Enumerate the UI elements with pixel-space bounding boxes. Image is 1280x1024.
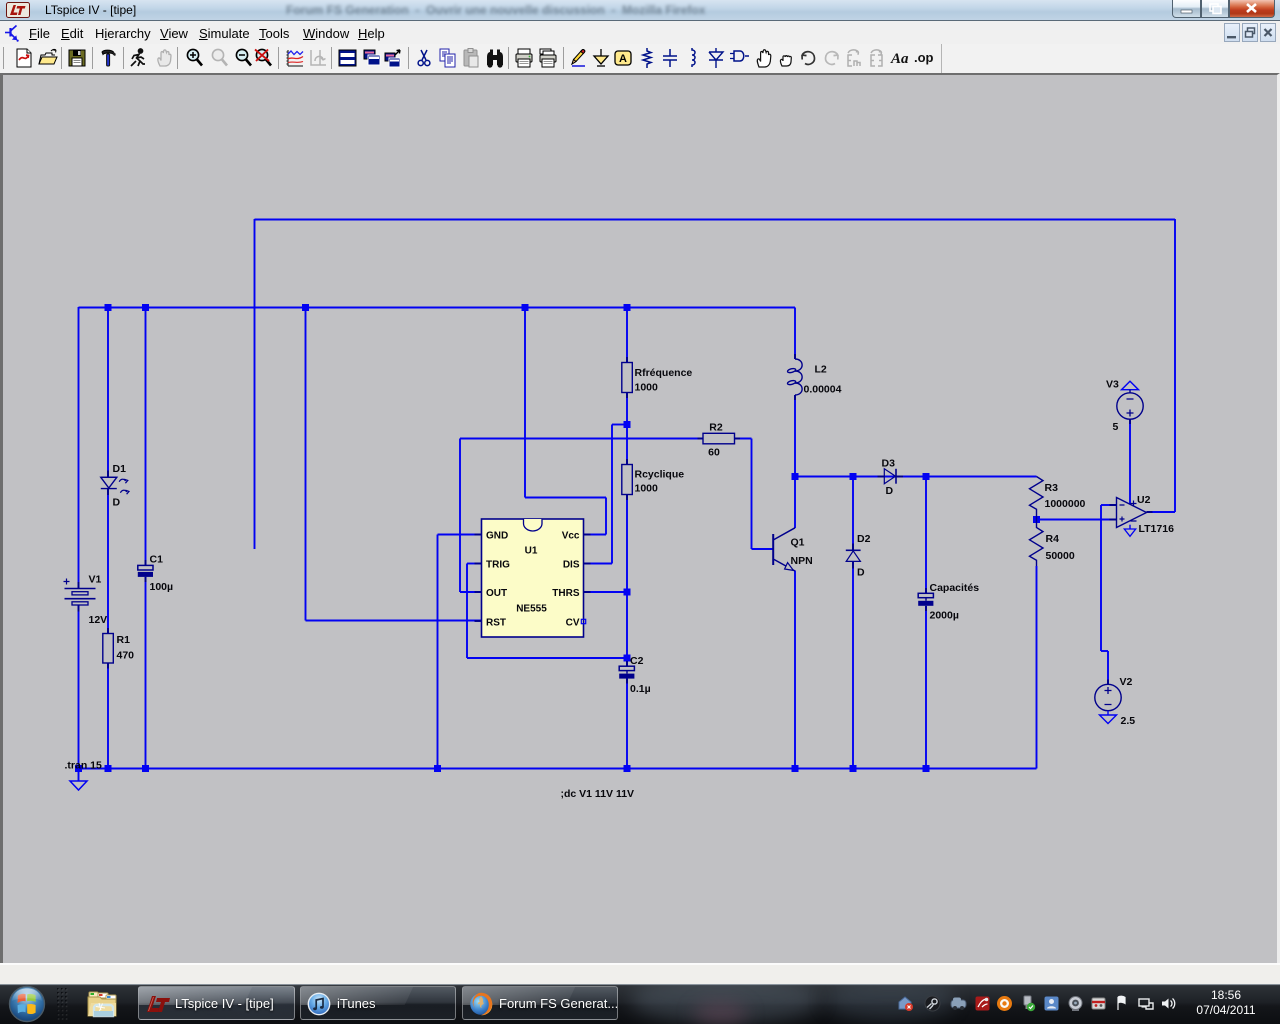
tray icon usb: [1019, 995, 1036, 1012]
svg-text:50000: 50000: [1046, 550, 1075, 562]
svg-text:U2: U2: [1137, 494, 1151, 506]
component pin stubs: [79, 354, 1153, 684]
wire: [795, 476, 1037, 478]
junction: [792, 473, 799, 480]
svg-text:V1: V1: [89, 574, 102, 586]
svg-text:.tran 15: .tran 15: [65, 760, 103, 772]
wire: [107, 663, 109, 769]
svg-text:Capacités: Capacités: [930, 582, 980, 594]
wire: [1107, 651, 1109, 685]
wire: [524, 308, 526, 498]
status bar: [0, 963, 1280, 984]
junction: [1033, 516, 1040, 523]
svg-text:NE555: NE555: [516, 604, 547, 615]
svg-text:470: 470: [117, 650, 135, 662]
svg-text:D: D: [857, 567, 865, 579]
svg-text:2.5: 2.5: [1121, 715, 1136, 727]
svg-text:V2: V2: [1120, 676, 1133, 688]
svg-text:0.00004: 0.00004: [804, 384, 842, 396]
tray icon 1: [897, 995, 914, 1012]
svg-text:100µ: 100µ: [150, 581, 174, 593]
svg-text:D1: D1: [113, 463, 127, 475]
junction: [105, 765, 112, 772]
ground main: [78, 769, 80, 782]
voltage source V2: [1095, 684, 1121, 710]
taskbar: [0, 984, 1280, 1024]
wire: [925, 477, 927, 594]
svg-text:60: 60: [708, 447, 720, 459]
svg-text:U1: U1: [525, 546, 538, 557]
tray network: [1137, 995, 1154, 1012]
ground under V2: [1107, 711, 1109, 715]
wire: [467, 563, 482, 565]
wire: [145, 577, 147, 769]
svg-text:0.1µ: 0.1µ: [630, 683, 651, 695]
wire: [1147, 511, 1176, 513]
diode D3: [884, 469, 895, 484]
svg-text:TRIG: TRIG: [486, 560, 510, 571]
svg-text:D: D: [886, 485, 894, 497]
svg-text:RST: RST: [486, 618, 506, 629]
tray flag: [1114, 995, 1131, 1012]
wire: [254, 219, 256, 549]
wire: [852, 562, 854, 769]
wire: [584, 534, 607, 536]
junction: [434, 765, 441, 772]
svg-text:DIS: DIS: [563, 560, 580, 571]
junction: [850, 765, 857, 772]
svg-text:Rcyclique: Rcyclique: [635, 469, 685, 481]
wire: [107, 489, 109, 634]
taskbar grip: [56, 987, 70, 1023]
capacitor C2: [619, 666, 634, 670]
wire: [626, 679, 628, 769]
diode D1 (LED): [101, 477, 129, 494]
wire: [852, 477, 854, 551]
wire: [78, 606, 80, 769]
wire ground rail: [79, 768, 1037, 770]
start orb: [8, 985, 46, 1023]
wire: [525, 497, 606, 499]
junction: [923, 765, 930, 772]
svg-text:2000µ: 2000µ: [930, 610, 959, 622]
op-amp U2 LT1716: [1117, 498, 1147, 528]
resistor R3: [1030, 477, 1044, 520]
resistor Rcyclique: [622, 465, 633, 495]
junction: [302, 304, 309, 311]
svg-text:;dc V1 11V 11V: ;dc V1 11V 11V: [561, 788, 635, 800]
wire: [794, 395, 796, 477]
wire: [1174, 219, 1176, 512]
svg-text:R4: R4: [1046, 533, 1060, 545]
svg-text:1000000: 1000000: [1045, 498, 1086, 510]
U2 negative supply flag: [1129, 525, 1131, 529]
junction: [105, 304, 112, 311]
wire: [626, 425, 628, 465]
wire: [459, 439, 461, 593]
svg-text:Q1: Q1: [791, 537, 805, 549]
wire: [611, 425, 613, 564]
resistor R2: [703, 433, 735, 444]
capacitor Capacites: [918, 593, 933, 597]
junction: [522, 304, 529, 311]
svg-text:R1: R1: [117, 634, 131, 646]
menu bar: [0, 20, 1280, 44]
op-amp U1 NE555 body: [482, 519, 584, 637]
wire: [584, 591, 628, 593]
taskbar button iTunes: [300, 986, 456, 1020]
svg-text:D3: D3: [882, 458, 896, 470]
wire: [626, 495, 628, 667]
svg-text:12V: 12V: [89, 614, 108, 626]
junction: [142, 304, 149, 311]
svg-text:R2: R2: [709, 422, 723, 434]
wire: [1036, 566, 1038, 769]
inductor L2: [787, 359, 802, 395]
wire: [751, 439, 753, 550]
junction: [75, 765, 82, 772]
wire: [925, 606, 927, 768]
wire: [466, 564, 468, 659]
wire: [794, 308, 796, 360]
wire: [107, 308, 109, 478]
svg-text:C1: C1: [150, 554, 164, 566]
wire: [1101, 650, 1108, 652]
wire: [467, 657, 627, 659]
svg-text:GND: GND: [486, 531, 508, 542]
svg-text:THRS: THRS: [552, 588, 580, 599]
wire: [752, 548, 773, 550]
tray icon 5: [996, 995, 1013, 1012]
junction: [624, 765, 631, 772]
wire: [626, 393, 628, 425]
wire: [605, 498, 607, 535]
diode D2: [846, 549, 861, 551]
svg-text:V3: V3: [1106, 379, 1119, 391]
tray icon webcam: [1067, 995, 1084, 1012]
wire: [78, 307, 80, 589]
svg-text:NPN: NPN: [791, 555, 813, 567]
wire: [460, 438, 703, 440]
open pin CV marker: [581, 619, 585, 623]
svg-text:Vcc: Vcc: [562, 531, 580, 542]
svg-text:1000: 1000: [635, 382, 659, 394]
tray icon messenger: [1043, 995, 1060, 1012]
wire: [306, 620, 482, 622]
svg-text:C2: C2: [630, 655, 644, 667]
wire: [145, 308, 147, 567]
wire: [626, 308, 628, 363]
svg-text:L2: L2: [815, 364, 827, 376]
taskbar button Firefox: [462, 986, 618, 1020]
tray speaker: [1160, 995, 1177, 1012]
taskbar button LTspice: [138, 986, 295, 1020]
wire net OUT top: [255, 219, 1176, 221]
junction: [850, 473, 857, 480]
tray icon steam: [924, 995, 941, 1012]
svg-text:Rfréquence: Rfréquence: [635, 367, 693, 379]
resistor R4: [1030, 520, 1044, 567]
wire: [1129, 420, 1131, 506]
svg-text:CV: CV: [566, 618, 580, 629]
voltage source V3: [1122, 381, 1139, 390]
junction: [624, 655, 631, 662]
svg-text:D: D: [113, 497, 121, 509]
wire Vcc bus: [79, 307, 796, 309]
wire: [735, 438, 752, 440]
svg-text:1000: 1000: [635, 483, 659, 495]
svg-text:LT1716: LT1716: [1139, 523, 1175, 535]
wire: [794, 477, 796, 529]
wire: [1037, 519, 1117, 521]
wire: [1100, 505, 1102, 651]
wire: [305, 308, 307, 621]
wire: [584, 563, 613, 565]
junction: [624, 421, 631, 428]
svg-text:OUT: OUT: [486, 588, 507, 599]
wire: [794, 571, 796, 769]
resistor R1: [103, 634, 114, 664]
junction: [624, 589, 631, 596]
wire: [612, 424, 627, 426]
svg-text:5: 5: [1113, 421, 1119, 433]
resistor Rfrequence: [622, 363, 633, 393]
transistor Q1 NPN: [773, 528, 795, 571]
tray icon 9: [1090, 995, 1107, 1012]
explorer icon: [86, 989, 118, 1019]
wire: [437, 535, 439, 769]
junction: [624, 304, 631, 311]
wire: [438, 534, 482, 536]
voltage source V1 (battery): [64, 579, 96, 606]
wire: [1101, 504, 1117, 506]
title bar: [0, 0, 1280, 20]
svg-text:R3: R3: [1045, 482, 1059, 494]
clock: [1196, 988, 1256, 1018]
capacitor C1: [138, 565, 153, 570]
junction: [142, 765, 149, 772]
junction: [923, 473, 930, 480]
toolbar: [0, 44, 1280, 73]
tray icon 4: [974, 995, 991, 1012]
junction: [792, 765, 799, 772]
wire: [460, 591, 482, 593]
svg-text:D2: D2: [857, 533, 871, 545]
tray icon 3: [950, 995, 967, 1012]
